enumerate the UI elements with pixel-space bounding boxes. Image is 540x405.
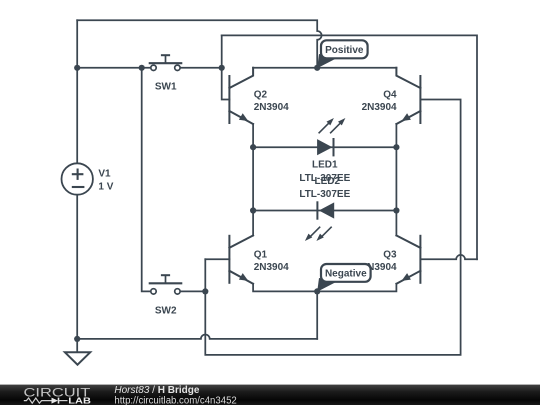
- svg-text:LTL-307EE: LTL-307EE: [299, 189, 350, 200]
- svg-text:2N3904: 2N3904: [254, 262, 289, 273]
- svg-text:LAB: LAB: [68, 396, 91, 405]
- svg-text:Positive: Positive: [325, 45, 364, 56]
- svg-text:Q2: Q2: [254, 89, 268, 100]
- svg-text:LED2: LED2: [315, 176, 341, 187]
- svg-text:http://circuitlab.com/c4n3452: http://circuitlab.com/c4n3452: [114, 395, 237, 405]
- svg-text:1 V: 1 V: [98, 181, 113, 192]
- svg-text:2N3904: 2N3904: [254, 102, 289, 113]
- svg-text:SW2: SW2: [155, 305, 177, 316]
- svg-text:Negative: Negative: [325, 269, 367, 280]
- svg-text:V1: V1: [98, 169, 111, 180]
- svg-text:Q1: Q1: [254, 249, 268, 260]
- svg-text:2N3904: 2N3904: [362, 102, 397, 113]
- svg-text:Q3: Q3: [383, 249, 397, 260]
- svg-text:LED1: LED1: [312, 160, 338, 171]
- svg-text:SW1: SW1: [155, 82, 177, 93]
- svg-text:Q4: Q4: [383, 89, 397, 100]
